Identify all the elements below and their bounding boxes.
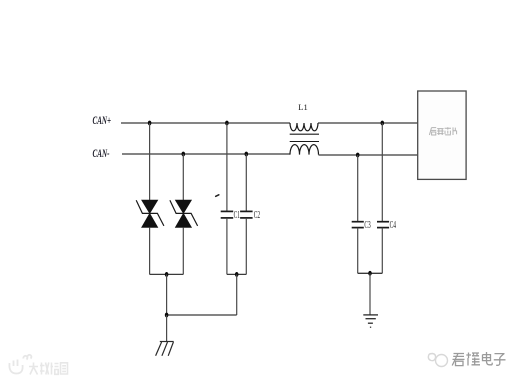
watermark bottom-left logo icon [9,355,31,374]
wire TVS rail to ground node [166,274,168,315]
端 [437,129,443,135]
junction dot TVS rail [165,272,169,277]
TVS diode D1 (bidirectional, on CAN+) [136,123,164,274]
耀 [466,353,480,366]
junction dot C1/C2 rail [235,272,239,277]
TVS diode D2 (bidirectional, on CAN-) [170,154,198,274]
capacitor C1 [221,123,240,274]
watermark bottom-right text 君耀电子 (drawn glyphs) [452,352,505,366]
大 [29,363,38,375]
wire CAN- right segment [319,154,419,156]
capacitor C4 [377,123,396,273]
后 [429,128,436,135]
电 [483,352,493,365]
inductor L1 bottom winding [290,145,319,155]
wire C3/C4 ground stem [369,273,371,315]
junction dot CAN+ / D1 [148,121,152,126]
wire TVS bottom rail [150,273,184,275]
wire left ground rail [167,314,237,316]
junction dot left ground node [165,313,169,318]
watermark bottom-left text 大数据圈 (drawn glyphs) [29,363,68,375]
node CAN- label [93,146,110,160]
片 [453,127,457,135]
圈 [61,363,68,374]
wire CAN- left segment [122,153,290,155]
wire C1/C2 rail to ground rail [236,274,238,315]
junction dot CAN- / C2 [245,152,249,157]
wire C3/C4 bottom rail [358,272,383,274]
stray ink mark [216,195,219,197]
junction dot CAN+ / C4 [381,121,385,126]
junction dot CAN- / C3 [356,153,360,158]
wire ground node stem [166,315,168,341]
earth ground symbol [363,315,378,327]
watermark bottom-right logo icon [428,354,447,367]
svg-text:C3: C3 [364,220,370,231]
数 [40,363,49,375]
wire C1/C2 bottom rail [227,273,246,275]
wire CAN+ right segment [318,122,418,124]
svg-text:C2: C2 [254,210,260,221]
子 [494,354,506,366]
君 [452,354,464,366]
svg-text:CAN+: CAN+ [93,113,112,127]
inductor L1 top winding [290,123,318,131]
芯 [445,127,451,135]
svg-text:C4: C4 [390,220,397,231]
chassis ground symbol [156,342,174,356]
svg-text:C1: C1 [234,210,240,221]
据 [51,363,59,375]
capacitor C2 [240,154,260,274]
svg-text:CAN-: CAN- [93,146,110,160]
inductor L1 core lines [290,134,319,141]
chip U1 box (后端芯片) [418,91,466,179]
inductor L1 common-mode choke label [298,102,307,112]
junction dot C3/C4 rail [368,271,372,276]
junction dot CAN- / D2 [182,152,186,157]
svg-text:L1: L1 [298,102,307,112]
node CAN+ label [93,113,112,127]
junction dot CAN+ / C1 [225,121,229,126]
capacitor C3 [352,155,371,273]
chip U1 label 后端芯片 (drawn glyphs) [429,127,456,135]
wire CAN+ left segment [121,122,290,124]
